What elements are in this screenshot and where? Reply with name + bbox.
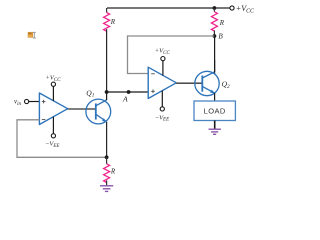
transistor Q1 bbox=[86, 88, 111, 124]
svg-text:+VCC: +VCC bbox=[155, 48, 171, 56]
terminal -VEE of U2 bbox=[160, 107, 164, 111]
broken-image icon bbox=[28, 32, 33, 37]
svg-text:LOAD: LOAD bbox=[204, 107, 226, 116]
ground (below LOAD) bbox=[209, 129, 221, 134]
svg-text:B: B bbox=[218, 33, 223, 41]
wire: feedback from node B to U2 inverting input (gray) bbox=[128, 36, 215, 74]
wire: resistor to ground stem bbox=[106, 180, 108, 185]
terminal -VEE of U1 bbox=[51, 134, 55, 138]
resistor R (top right) bbox=[213, 8, 215, 12]
node: Q1 collector junction bbox=[105, 90, 109, 94]
svg-text:vin: vin bbox=[14, 98, 22, 107]
op-amp U2 bbox=[148, 67, 176, 98]
wire: -VEE stem of U2 bbox=[161, 91, 163, 107]
wire: +VCC stem into U1 bbox=[52, 86, 54, 101]
wire: Q1 collector up to node bbox=[106, 92, 108, 100]
op-amp U1 bbox=[39, 93, 67, 125]
svg-text:Q2: Q2 bbox=[222, 80, 230, 90]
wire: top supply rail bbox=[107, 7, 230, 9]
svg-text:R: R bbox=[219, 19, 225, 27]
wire: Q2 collector up to node B line bbox=[214, 60, 216, 72]
wire: left rail from resistor down to collector node bbox=[106, 29, 108, 92]
node: emitter / feedback junction bbox=[105, 155, 109, 159]
wire: vin to U1 + input bbox=[29, 101, 40, 103]
wire: Q2 emitter down to LOAD bbox=[214, 93, 216, 101]
transistor Q2 bbox=[195, 71, 230, 95]
wire: Q1 emitter down to bottom node bbox=[106, 122, 108, 158]
resistor R (top left) bbox=[106, 8, 108, 13]
resistor R (bottom) bbox=[106, 157, 108, 164]
wire: U2 output to Q2 base bbox=[176, 82, 202, 84]
LOAD box bbox=[194, 101, 235, 121]
ground (bottom left) bbox=[100, 186, 113, 192]
svg-text:−VEE: −VEE bbox=[155, 114, 169, 122]
wire: -VEE stem of U1 bbox=[52, 117, 54, 134]
node A bbox=[127, 90, 131, 94]
node B bbox=[213, 34, 217, 38]
wire: collector node to op-amp U2 + input bbox=[107, 91, 149, 93]
wire: LOAD to ground stem bbox=[214, 121, 216, 129]
node: junction of right resistor with top rail bbox=[213, 6, 217, 10]
svg-text:+VCC: +VCC bbox=[236, 4, 254, 15]
svg-text:−VEE: −VEE bbox=[45, 141, 59, 149]
text cursor I-beam bbox=[33, 32, 36, 39]
svg-text:A: A bbox=[122, 94, 128, 103]
svg-text:R: R bbox=[110, 18, 116, 26]
wire: +VCC stem into U2 bbox=[162, 61, 164, 76]
svg-text:Q1: Q1 bbox=[86, 88, 94, 98]
wire: feedback loop U1 (gray) bbox=[17, 120, 107, 158]
terminal +VCC (top right) bbox=[230, 6, 234, 10]
wire: node B down to Q2 collector bbox=[214, 36, 216, 74]
wire: U1 output to Q1 base bbox=[68, 108, 96, 110]
svg-text:R: R bbox=[110, 168, 116, 176]
